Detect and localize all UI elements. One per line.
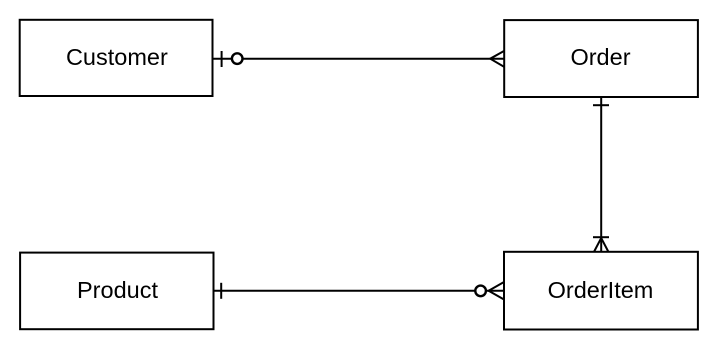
- entity Product: [20, 253, 213, 330]
- cardinality zero circle at Customer: [232, 53, 243, 64]
- entity OrderItem: [504, 252, 698, 330]
- cardinality many crow's foot at OrderItem top: [594, 238, 609, 252]
- wire Order-OrderItem: [600, 97, 602, 252]
- cardinality zero circle at OrderItem: [475, 286, 486, 297]
- svg-text:Customer: Customer: [66, 44, 168, 70]
- cardinality many crow's foot at OrderItem left: [489, 282, 504, 300]
- wire Customer-Order: [213, 58, 505, 60]
- entity Customer: [20, 20, 213, 96]
- svg-text:Order: Order: [570, 44, 630, 70]
- cardinality one tick at OrderItem: [593, 236, 609, 238]
- entity Order: [504, 20, 698, 97]
- cardinality one tick at Product: [220, 283, 222, 299]
- svg-text:Product: Product: [77, 277, 158, 303]
- cardinality many crow's foot at Order: [490, 51, 504, 67]
- cardinality one tick at Customer: [221, 51, 223, 67]
- cardinality one tick at Order: [593, 104, 609, 106]
- svg-text:OrderItem: OrderItem: [548, 277, 654, 303]
- wire Product-OrderItem: [214, 290, 505, 292]
